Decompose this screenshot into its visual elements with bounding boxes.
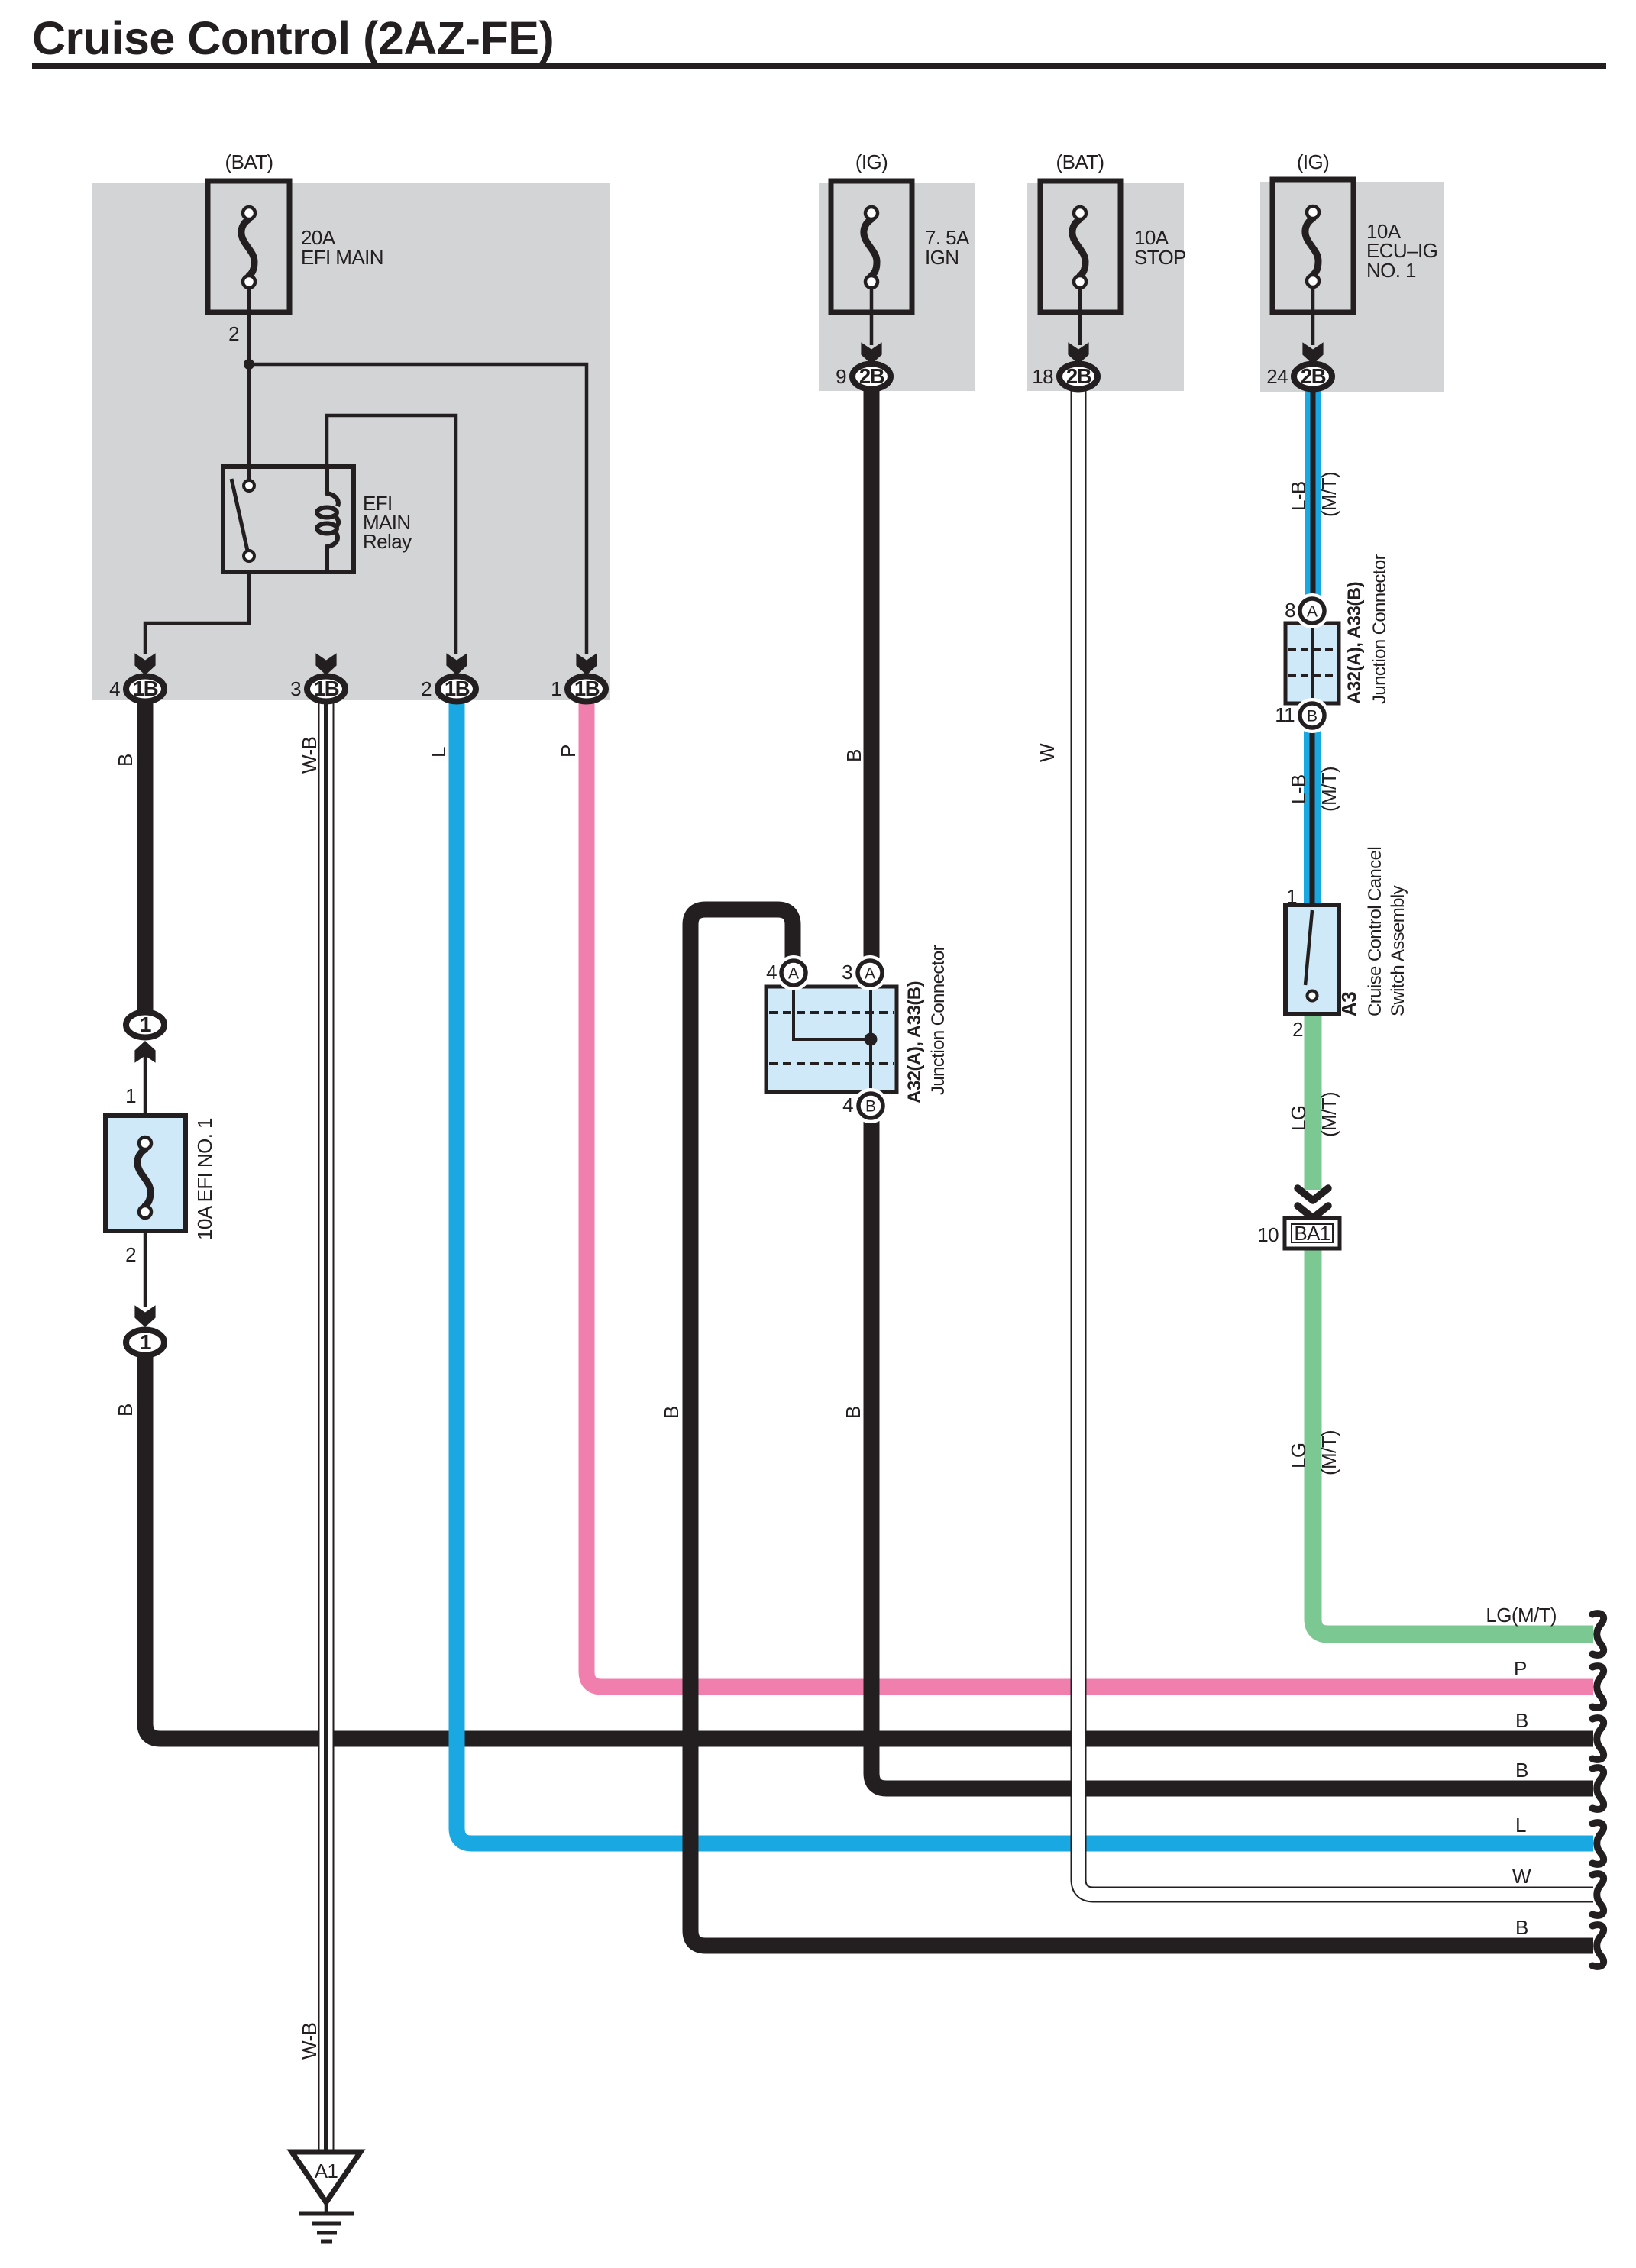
- svg-text:Switch Assembly: Switch Assembly: [1388, 885, 1408, 1016]
- svg-text:1: 1: [140, 1330, 151, 1354]
- junction connector A32(A),A33(B) mid: [766, 987, 897, 1092]
- grey box: STOP fuse: [1027, 183, 1184, 391]
- svg-text:3: 3: [842, 961, 852, 984]
- svg-text:A1: A1: [315, 2160, 338, 2182]
- svg-text:Cruise Control (2AZ-FE): Cruise Control (2AZ-FE): [32, 12, 554, 64]
- svg-text:L-B: L-B: [1287, 774, 1310, 804]
- svg-text:Junction Connector: Junction Connector: [1369, 554, 1390, 704]
- grey box: engine room junction block (left): [92, 183, 610, 700]
- svg-text:2: 2: [125, 1243, 136, 1266]
- svg-text:Junction Connector: Junction Connector: [928, 945, 949, 1095]
- svg-text:W-B: W-B: [298, 737, 321, 774]
- wire break squiggle W row: [1592, 1874, 1604, 1916]
- wire: EFI NO.1 fuse leads: [144, 1045, 147, 1143]
- svg-text:11: 11: [1275, 703, 1295, 726]
- connector 1 upper (EFI NO.1): [126, 1013, 164, 1038]
- svg-text:(M/T): (M/T): [1318, 1092, 1340, 1137]
- wire break squiggle B3 row: [1592, 1718, 1604, 1760]
- wire B: connector 1 down, right to pigtail row 3: [145, 1355, 1593, 1739]
- svg-text:1B: 1B: [133, 677, 158, 700]
- svg-text:9: 9: [836, 365, 846, 388]
- wire break squiggle LG row: [1592, 1614, 1604, 1656]
- node: junction dot below EFI MAIN fuse: [244, 359, 254, 370]
- svg-text:1: 1: [1286, 885, 1297, 908]
- wire LG: BA1 down, right to pigtail: [1313, 1249, 1593, 1634]
- svg-text:B: B: [1515, 1709, 1528, 1732]
- svg-text:1B: 1B: [314, 677, 339, 700]
- junction connector A32(A),A33(B) right: [1285, 623, 1339, 703]
- svg-text:A3: A3: [1337, 992, 1360, 1016]
- connector 1 lower (EFI NO.1): [126, 1330, 164, 1355]
- connector 2B pin 24: [1294, 364, 1332, 389]
- svg-text:B: B: [865, 1098, 876, 1116]
- svg-text:L-B: L-B: [1287, 481, 1310, 511]
- label B (junction left leg): [660, 1406, 683, 1419]
- svg-text:W: W: [1036, 743, 1059, 762]
- svg-text:P: P: [557, 745, 580, 758]
- wire P: 1B1 down, right to pigtail: [587, 701, 1593, 1687]
- svg-text:B: B: [114, 1404, 137, 1417]
- label W (STOP wire): [1036, 743, 1059, 762]
- svg-text:2B: 2B: [1066, 364, 1091, 388]
- svg-text:1B: 1B: [574, 677, 600, 700]
- svg-text:B: B: [1307, 708, 1318, 725]
- wire W-B: 1B3 down to ground A1: [318, 701, 335, 2153]
- label W-B (1B3 wire): [298, 737, 321, 774]
- svg-text:NO. 1: NO. 1: [1366, 259, 1416, 282]
- svg-text:(BAT): (BAT): [225, 150, 273, 173]
- svg-text:10A EFI NO. 1: 10A EFI NO. 1: [193, 1118, 216, 1240]
- wire B: junction 4B down, right to pigtail row 4: [871, 1118, 1593, 1788]
- wire break squiggle B7 row: [1592, 1925, 1604, 1967]
- svg-text:(M/T): (M/T): [1318, 472, 1340, 517]
- svg-text:2B: 2B: [1301, 364, 1326, 388]
- svg-text:2: 2: [1292, 1018, 1303, 1041]
- label (M/T): [1318, 1092, 1340, 1137]
- svg-text:BA1: BA1: [1294, 1222, 1330, 1245]
- label LG upper: [1287, 1106, 1310, 1131]
- connector 1B pin 4: [126, 677, 164, 702]
- arrows at 1B row: [134, 653, 155, 675]
- wire: relay switch to 1B pin 4: [145, 572, 249, 654]
- label (M/T) upper: [1318, 472, 1340, 517]
- fuse 7.5A IGN: [831, 181, 912, 312]
- wire B: 1B4 to connector 1: [137, 701, 154, 1016]
- wire break squiggle B4 row: [1592, 1768, 1604, 1810]
- wire LG: cancel switch to BA1: [1305, 1013, 1322, 1190]
- svg-text:W-B: W-B: [298, 2023, 321, 2060]
- svg-text:Cruise Control Cancel: Cruise Control Cancel: [1365, 847, 1385, 1016]
- label B (1B4 wire): [114, 754, 137, 767]
- svg-text:(M/T): (M/T): [1318, 1430, 1340, 1475]
- svg-text:STOP: STOP: [1134, 246, 1186, 269]
- fuse 10A ECU-IG NO.1: [1272, 179, 1353, 312]
- pin 8A: [1295, 593, 1330, 628]
- label W-B (above ground): [298, 2023, 321, 2060]
- pin 11B: [1295, 698, 1330, 733]
- svg-text:B: B: [842, 749, 865, 762]
- svg-text:A: A: [865, 965, 875, 983]
- label B (IGN wire): [842, 749, 865, 762]
- svg-text:4: 4: [842, 1094, 853, 1116]
- connector BA1: [1285, 1218, 1340, 1249]
- svg-text:1: 1: [140, 1013, 151, 1036]
- wire L-B: junction B to cancel switch: [1304, 729, 1321, 907]
- svg-text:B: B: [842, 1406, 865, 1419]
- svg-text:1: 1: [551, 677, 561, 700]
- wire: IGN fuse to 2B: [870, 288, 874, 345]
- pin 4A: [776, 955, 811, 990]
- svg-text:LG(M/T): LG(M/T): [1486, 1604, 1557, 1627]
- svg-text:A: A: [788, 965, 799, 983]
- connector 1B pin 2: [438, 677, 476, 702]
- label (M/T) lower: [1318, 767, 1340, 812]
- svg-text:24: 24: [1266, 365, 1288, 388]
- relay EFI MAIN Relay: [223, 467, 354, 572]
- svg-text:LG: LG: [1287, 1443, 1310, 1468]
- svg-text:A32(A), A33(B): A32(A), A33(B): [1344, 582, 1365, 704]
- label (M/T): [1318, 1430, 1340, 1475]
- connector 2B pin 18: [1059, 364, 1098, 389]
- label L (1B2 wire): [427, 747, 450, 758]
- wire L: 1B2 down, right to pigtail: [457, 701, 1593, 1843]
- switch A3 Cruise Control Cancel Switch Assembly: [1285, 905, 1339, 1014]
- inline connector chevrons: [1298, 1188, 1328, 1218]
- svg-text:10: 10: [1257, 1223, 1279, 1246]
- svg-text:L: L: [427, 747, 450, 758]
- wire B: junction 4A left leg down to pigtail row 7: [690, 909, 1593, 1946]
- pin 3A: [852, 955, 888, 990]
- wire: relay coil to 1B pin 2: [327, 415, 456, 654]
- fuse 20A EFI MAIN: [208, 181, 289, 312]
- wire break squiggle L row: [1592, 1823, 1604, 1865]
- svg-text:LG: LG: [1287, 1106, 1310, 1131]
- label B (below connector 1): [114, 1404, 137, 1417]
- svg-text:3: 3: [290, 677, 301, 700]
- svg-text:B: B: [1515, 1916, 1528, 1939]
- svg-text:1B: 1B: [445, 677, 470, 700]
- pin 4B: [853, 1088, 888, 1123]
- arrows at 2B row: [861, 342, 881, 364]
- wire: fuse EFI MAIN to relay: [247, 288, 251, 483]
- grey box: IGN fuse: [819, 183, 975, 391]
- svg-text:(IG): (IG): [855, 150, 888, 173]
- wire: STOP fuse to 2B: [1078, 288, 1082, 345]
- arrows at EFI NO.1 connector 1: [134, 1305, 155, 1327]
- fuse 10A EFI NO.1: [105, 1116, 186, 1231]
- svg-text:A: A: [1307, 603, 1318, 621]
- label P (1B1 wire): [557, 745, 580, 758]
- svg-text:(BAT): (BAT): [1056, 150, 1104, 173]
- svg-text:4: 4: [766, 961, 777, 984]
- svg-text:A32(A), A33(B): A32(A), A33(B): [904, 981, 925, 1103]
- relay coil: [317, 467, 338, 572]
- svg-text:EFI MAIN: EFI MAIN: [301, 246, 383, 269]
- connector 2B pin 9: [852, 364, 891, 389]
- label L-B upper: [1287, 481, 1310, 511]
- svg-text:B: B: [660, 1406, 683, 1419]
- svg-text:IGN: IGN: [925, 246, 959, 269]
- svg-text:2: 2: [228, 322, 239, 345]
- grey box: ECU-IG fuse: [1260, 182, 1444, 392]
- label L-B lower: [1287, 774, 1310, 804]
- svg-text:2B: 2B: [859, 364, 884, 388]
- wire: node to 1B pin 1: [249, 364, 587, 654]
- wire: ECU-IG fuse to 2B: [1311, 287, 1315, 345]
- fuse 10A STOP: [1040, 181, 1120, 312]
- svg-text:Relay: Relay: [363, 530, 412, 553]
- svg-text:P: P: [1514, 1657, 1527, 1680]
- wire B: IGN 2B down to junction 3A: [864, 389, 880, 961]
- svg-text:B: B: [114, 754, 137, 767]
- svg-text:18: 18: [1032, 365, 1053, 388]
- wire L-B: ECU-IG 2B to junction A: [1305, 389, 1321, 599]
- svg-text:L: L: [1515, 1814, 1526, 1837]
- connector 1B pin 3: [307, 677, 345, 702]
- wire W: STOP 2B down, right to pigtail: [1078, 389, 1593, 1895]
- connector 1B pin 1: [567, 677, 606, 702]
- svg-text:8: 8: [1285, 599, 1295, 622]
- svg-text:W: W: [1512, 1865, 1531, 1888]
- label B (junction right leg): [842, 1406, 865, 1419]
- label LG lower: [1287, 1443, 1310, 1468]
- svg-text:2: 2: [421, 677, 432, 700]
- wire break squiggle P row: [1592, 1666, 1604, 1708]
- svg-text:(M/T): (M/T): [1318, 767, 1340, 812]
- svg-text:B: B: [1515, 1759, 1528, 1782]
- svg-text:1: 1: [125, 1084, 136, 1107]
- ground A1: [292, 2152, 361, 2202]
- svg-text:4: 4: [109, 677, 120, 700]
- svg-text:(IG): (IG): [1297, 150, 1329, 173]
